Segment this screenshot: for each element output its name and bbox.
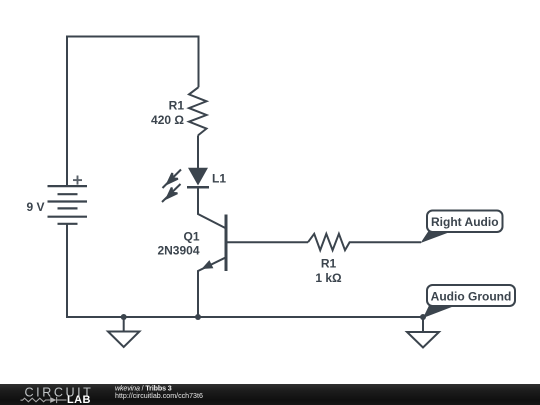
svg-text:wkevina / Tribbs 3: wkevina / Tribbs 3 <box>115 384 172 392</box>
svg-text:1 kΩ: 1 kΩ <box>315 271 342 285</box>
svg-text:R1: R1 <box>169 99 185 113</box>
svg-text:9 V: 9 V <box>26 200 44 214</box>
svg-text:http://circuitlab.com/cch73t6: http://circuitlab.com/cch73t6 <box>115 392 203 400</box>
svg-text:Audio Ground: Audio Ground <box>431 290 512 304</box>
svg-text:R1: R1 <box>321 256 337 270</box>
svg-text:L1: L1 <box>212 172 226 186</box>
svg-text:Right Audio: Right Audio <box>431 215 499 229</box>
svg-text:Q1: Q1 <box>183 230 199 244</box>
svg-text:420 Ω: 420 Ω <box>151 113 184 127</box>
svg-text:LAB: LAB <box>67 394 91 405</box>
svg-text:2N3904: 2N3904 <box>157 244 199 258</box>
